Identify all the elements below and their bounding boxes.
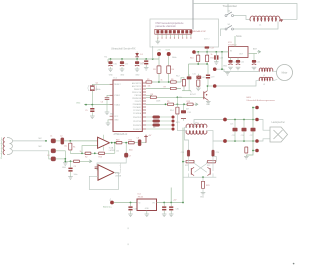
svg-text:PC4/SDA: PC4/SDA xyxy=(133,112,142,115)
svg-text:8MHz: 8MHz xyxy=(96,89,101,91)
feedback loop IC2B xyxy=(89,173,118,190)
svg-text:10k: 10k xyxy=(116,151,119,153)
svg-text:D1: D1 xyxy=(140,54,143,56)
svg-text:R13: R13 xyxy=(187,101,190,103)
svg-text:R4: R4 xyxy=(172,69,174,71)
svg-text:+5V: +5V xyxy=(173,200,177,202)
capacitor C10 xyxy=(110,59,112,61)
ground inside frame xyxy=(157,39,159,42)
svg-text:SV1: SV1 xyxy=(176,122,180,124)
connector pin stubs xyxy=(157,34,159,37)
svg-text:IC2A: IC2A xyxy=(109,146,114,149)
wire mic top xyxy=(13,140,46,142)
svg-text:10u: 10u xyxy=(64,146,67,148)
svg-text:C11: C11 xyxy=(125,64,128,66)
pad K5 xyxy=(255,139,259,143)
svg-text:C18: C18 xyxy=(220,58,223,60)
connector SV2 ICSP header xyxy=(155,29,192,34)
resistor R25 xyxy=(197,80,200,86)
svg-text:PC5/SCL: PC5/SCL xyxy=(133,110,141,112)
svg-text:PD6/AIN0: PD6/AIN0 xyxy=(133,103,141,106)
wire PB0 row xyxy=(146,81,181,83)
wire coils to motor xyxy=(273,71,278,73)
wire antenna out xyxy=(283,19,298,21)
svg-text:BC547: BC547 xyxy=(190,94,196,96)
resistor R11 xyxy=(206,52,208,55)
wire bank left rail xyxy=(252,108,254,120)
svg-text:Node: Node xyxy=(236,35,242,38)
svg-text:C28: C28 xyxy=(134,208,137,210)
resistor R14 xyxy=(176,107,179,114)
svg-text:PD5/T1: PD5/T1 xyxy=(135,101,141,103)
wire R21 to rail xyxy=(183,161,186,163)
svg-text:Lautsprecher: Lautsprecher xyxy=(272,121,286,124)
svg-text:GND: GND xyxy=(145,208,150,210)
svg-text:R6: R6 xyxy=(171,79,173,81)
capacitor C1 xyxy=(51,139,56,143)
svg-text:C27: C27 xyxy=(250,135,253,137)
svg-text:L1: L1 xyxy=(259,25,262,27)
svg-text:ADC6/PC0: ADC6/PC0 xyxy=(132,82,141,85)
svg-text:PB2/SS: PB2/SS xyxy=(135,95,142,97)
capacitor C7 xyxy=(125,143,127,154)
pad K3 xyxy=(255,118,259,122)
junction xyxy=(45,140,47,142)
svg-text:+5V: +5V xyxy=(157,49,161,51)
junction xyxy=(110,58,112,60)
voltage regulator IC4 xyxy=(137,199,157,211)
net arrow xyxy=(195,103,197,106)
wire pad M1 to motor xyxy=(217,69,260,71)
svg-text:R5: R5 xyxy=(147,79,149,81)
ground IC1 GND pin xyxy=(108,120,110,123)
svg-text:TR1: TR1 xyxy=(195,122,199,124)
svg-text:IC1: IC1 xyxy=(114,78,118,80)
svg-text:KSM messekursprojektierte: KSM messekursprojektierte xyxy=(156,22,185,25)
svg-text:R1: R1 xyxy=(73,146,75,148)
svg-text:TX1: TX1 xyxy=(104,57,107,59)
svg-text:GND: GND xyxy=(200,197,205,199)
capacitor C20 xyxy=(230,58,232,61)
capacitor C5 xyxy=(91,105,93,108)
ground regulator xyxy=(146,211,148,214)
svg-text:PD3/INT1: PD3/INT1 xyxy=(133,129,141,131)
capacitor C16 xyxy=(182,104,184,110)
capacitor C2 xyxy=(56,140,61,142)
capacitor C30 xyxy=(170,203,172,207)
svg-text:HE3: HE3 xyxy=(247,97,252,99)
filter beads FB1-FB3 xyxy=(153,116,160,119)
svg-text:GND: GND xyxy=(206,104,211,106)
transistor T1 xyxy=(203,91,205,99)
svg-text:C16: C16 xyxy=(187,112,190,114)
wire cap bank bottom rail xyxy=(227,140,255,142)
pad K6 xyxy=(255,149,259,153)
svg-text:PD0/RXD: PD0/RXD xyxy=(133,117,142,119)
capacitor C4 xyxy=(51,157,56,161)
svg-text:Motor: Motor xyxy=(282,72,288,75)
ground motor wire xyxy=(227,71,229,74)
capacitor C21 xyxy=(237,58,239,61)
wire to LED branch xyxy=(188,64,190,77)
inductor L2 xyxy=(259,68,273,72)
svg-text:ATMEGA8-AI: ATMEGA8-AI xyxy=(114,133,128,136)
pad Batterie+ xyxy=(110,201,114,205)
svg-text:R14: R14 xyxy=(170,110,173,112)
svg-text:C6: C6 xyxy=(101,101,103,103)
svg-text:R21: R21 xyxy=(185,165,188,167)
motor M xyxy=(277,65,293,81)
transistor T2 xyxy=(191,167,194,175)
resistor R22 xyxy=(208,160,216,163)
wire header to sensor rail xyxy=(152,46,154,59)
coupling capacitor C9 xyxy=(95,166,100,168)
svg-text:GND: GND xyxy=(110,114,115,116)
svg-text:10k: 10k xyxy=(148,86,151,88)
connector SV1 pads xyxy=(171,115,174,118)
svg-text:Kondensatormikrofon: Kondensatormikrofon xyxy=(0,137,3,159)
wire RF driver lower rail xyxy=(189,63,208,65)
ground emitter xyxy=(207,100,209,103)
svg-text:C25: C25 xyxy=(230,124,233,126)
svg-text:ADC7/PC1: ADC7/PC1 xyxy=(132,85,141,88)
pad M2 xyxy=(213,84,217,88)
wire cap bank top rail xyxy=(227,119,255,121)
resistor R13 xyxy=(187,103,193,106)
op-amp IC2B xyxy=(98,165,114,180)
svg-text:GND: GND xyxy=(135,74,140,76)
switch S1 xyxy=(225,25,234,30)
LED1 xyxy=(196,76,201,79)
junction xyxy=(197,51,199,53)
svg-text:R23: R23 xyxy=(206,185,209,187)
svg-text:C7: C7 xyxy=(129,155,131,157)
resistor R8 xyxy=(150,96,156,99)
svg-text:passende vlastnosti: passende vlastnosti xyxy=(156,25,177,28)
transistor T3 xyxy=(207,167,210,175)
output chain of IC2A xyxy=(110,142,139,144)
svg-text:IC4: IC4 xyxy=(138,194,142,196)
wire OC1A row xyxy=(146,94,152,96)
svg-text:XTAL1: XTAL1 xyxy=(114,94,120,97)
capacitor C29 xyxy=(163,203,165,207)
wire Node into IC3 xyxy=(234,36,236,47)
wire antenna return loop xyxy=(234,22,278,30)
svg-text:1k: 1k xyxy=(161,80,163,82)
svg-text:R2: R2 xyxy=(85,157,87,159)
feedback wire xyxy=(114,143,116,154)
resistor R12 xyxy=(181,78,184,83)
svg-text:ANT2: ANT2 xyxy=(204,38,210,41)
svg-text:MEGA8-ICSP: MEGA8-ICSP xyxy=(193,30,207,33)
pad K4 xyxy=(223,139,227,143)
wire secondary right to pad xyxy=(207,131,224,141)
wire to inverting input xyxy=(82,146,98,154)
capacitor C17 xyxy=(205,46,210,48)
svg-text:XTAL2: XTAL2 xyxy=(114,103,120,106)
resistor R23 xyxy=(202,177,204,181)
svg-text:C2: C2 xyxy=(60,136,62,138)
ground mic bias xyxy=(63,163,68,166)
wire drive rail xyxy=(177,114,186,131)
wire primary tap to pad xyxy=(194,120,223,128)
svg-text:4k7: 4k7 xyxy=(186,108,189,110)
svg-text:GND: GND xyxy=(109,74,114,76)
resistor R7 xyxy=(170,87,176,89)
svg-text:PB1/OC1A: PB1/OC1A xyxy=(132,91,142,94)
stray mark xyxy=(293,263,295,265)
IC1 ATMEGA8 microcontroller xyxy=(113,80,142,132)
svg-text:Transmitter: Transmitter xyxy=(223,4,238,8)
svg-text:GND: GND xyxy=(62,167,67,169)
wire switch S1 to node xyxy=(221,29,226,36)
transformer TR1 primary xyxy=(186,124,207,128)
wire sensor rail xyxy=(108,58,159,60)
svg-text:Ultraschall Sende+RX: Ultraschall Sende+RX xyxy=(111,47,136,50)
svg-text:OSC: OSC xyxy=(76,103,81,105)
svg-text:78L05: 78L05 xyxy=(138,196,144,198)
net arrow xyxy=(89,160,91,163)
resistor R1 xyxy=(69,141,71,143)
svg-text:C3: C3 xyxy=(74,166,76,168)
svg-text:PB3/MOSI: PB3/MOSI xyxy=(132,98,141,100)
crystal Q1 xyxy=(92,84,109,85)
svg-text:C15: C15 xyxy=(192,74,195,76)
wire to second stage xyxy=(97,157,126,166)
svg-text:OUT: OUT xyxy=(166,49,171,51)
pad K2 xyxy=(223,118,227,122)
wire lower bar xyxy=(182,90,191,92)
svg-text:R22: R22 xyxy=(207,165,210,167)
svg-text:C26: C26 xyxy=(241,135,244,137)
wire +5V rail xyxy=(182,128,184,203)
capacitor C11 xyxy=(121,59,123,61)
cross-coupling wires xyxy=(195,162,207,173)
svg-text:R12: R12 xyxy=(176,76,179,78)
resistor R10 xyxy=(197,52,199,55)
IC1 left pin stubs xyxy=(110,83,113,85)
wire row 2 xyxy=(146,88,181,90)
svg-text:C10: C10 xyxy=(113,64,116,66)
svg-text:C8: C8 xyxy=(137,138,139,140)
resistor R17 xyxy=(74,160,80,162)
svg-text:PD7/AIN1: PD7/AIN1 xyxy=(133,106,141,109)
svg-text:R8: R8 xyxy=(151,94,153,96)
svg-text:C13: C13 xyxy=(140,62,143,64)
svg-text:PB0/ICP: PB0/ICP xyxy=(134,89,142,91)
resistor R4 xyxy=(168,56,170,66)
svg-text:C19: C19 xyxy=(211,76,214,78)
pad +5V xyxy=(157,52,161,56)
svg-text:MIC: MIC xyxy=(39,146,43,148)
svg-text:1k: 1k xyxy=(194,53,196,55)
svg-text:C5: C5 xyxy=(85,110,87,112)
wire R22 outer xyxy=(213,156,216,161)
capacitor C27 xyxy=(251,128,256,132)
capacitor C6 xyxy=(107,95,110,97)
capacitor C28 xyxy=(130,203,132,207)
svg-text:Ultraschall-Entfernungsmesser: Ultraschall-Entfernungsmesser xyxy=(247,99,276,102)
wire PD6 row xyxy=(146,103,194,105)
svg-text:L2: L2 xyxy=(263,75,265,77)
wire emitter rail xyxy=(183,176,216,178)
wire cap C23 to T2 xyxy=(188,156,190,171)
wire bias xyxy=(49,151,51,159)
diode D1 xyxy=(135,53,139,57)
wire collector xyxy=(207,86,209,90)
module frame ICSP-header block xyxy=(150,19,219,47)
svg-text:C17: C17 xyxy=(211,48,214,50)
microphone MIC1 xyxy=(7,138,13,155)
svg-text:C4: C4 xyxy=(47,155,49,157)
speaker LS1 xyxy=(270,127,288,142)
svg-text:R11: R11 xyxy=(211,58,214,60)
svg-text:GND: GND xyxy=(120,74,125,76)
capacitor C18 xyxy=(215,52,217,56)
resistor R15 xyxy=(99,152,105,154)
pad OUT xyxy=(167,52,171,56)
IC3 transmitter module box xyxy=(229,47,249,58)
IC1 right pin stubs xyxy=(142,82,146,84)
svg-text:R20: R20 xyxy=(129,139,132,141)
svg-text:RESET: RESET xyxy=(114,84,121,86)
ground oscillator xyxy=(201,193,206,196)
svg-text:GND: GND xyxy=(223,65,228,67)
wire base row xyxy=(146,96,204,98)
resistor R5 xyxy=(146,81,152,83)
svg-text:LED: LED xyxy=(202,77,206,79)
supply arrow +5V xyxy=(144,135,148,143)
svg-text:22k: 22k xyxy=(179,97,182,99)
switch S2 xyxy=(225,12,234,17)
resistor R21 xyxy=(186,160,194,163)
capacitor C8 xyxy=(138,140,141,146)
svg-text:MIC: MIC xyxy=(39,138,43,140)
resistor R3 xyxy=(158,56,160,66)
svg-text:L3: L3 xyxy=(263,84,265,86)
svg-text:R3: R3 xyxy=(153,69,155,71)
svg-text:GND: GND xyxy=(114,120,119,122)
capacitor C25 xyxy=(234,120,236,128)
wire pads K1 K6 stubs xyxy=(253,107,255,109)
wire inverting input network xyxy=(70,152,115,154)
svg-text:PD2/INT0: PD2/INT0 xyxy=(133,125,141,127)
svg-text:C30: C30 xyxy=(176,208,179,210)
wire connector rows xyxy=(146,116,171,118)
antenna coil L1 xyxy=(250,20,251,22)
wire pad M2 to motor xyxy=(217,81,260,86)
svg-text:Q1: Q1 xyxy=(96,83,99,85)
svg-text:C23: C23 xyxy=(181,152,184,154)
resistor R20 xyxy=(128,142,134,144)
capacitor C23 xyxy=(187,150,190,156)
wire IC3 output with antenna arrow xyxy=(248,53,257,55)
wire arrow out xyxy=(65,160,88,162)
capacitor C13 xyxy=(145,59,147,60)
wire cap C24 to T3 xyxy=(212,156,214,171)
wire from top edge into header xyxy=(192,0,194,29)
resistor R6 xyxy=(170,81,176,83)
pad antenna node xyxy=(192,50,196,54)
wire mic bottom xyxy=(13,150,49,152)
svg-text:1k: 1k xyxy=(80,151,82,153)
svg-text:100n: 100n xyxy=(74,174,78,176)
wire battery to regulator xyxy=(114,202,137,204)
wire RF rail xyxy=(196,51,229,53)
svg-text:Batterie+: Batterie+ xyxy=(103,205,113,208)
capacitor C26 xyxy=(243,120,245,128)
pad K1 xyxy=(255,106,259,110)
wire speaker leads xyxy=(259,120,270,131)
capacitor C22 xyxy=(253,54,255,61)
svg-text:R10: R10 xyxy=(190,58,193,60)
capacitor C24 xyxy=(212,141,214,150)
transformer TR1 secondary xyxy=(186,131,207,135)
wire to ground node xyxy=(56,151,66,163)
svg-text:+5V: +5V xyxy=(148,135,152,137)
svg-text:100n: 100n xyxy=(129,150,133,152)
wire switch S2 to antenna coil xyxy=(234,16,250,20)
wire aux rail xyxy=(170,188,172,203)
wire crystal to XTAL2 rail xyxy=(91,91,93,105)
capacitor C3 xyxy=(51,149,56,153)
svg-text:C22: C22 xyxy=(257,62,260,64)
capacitor C19 snubber xyxy=(207,64,209,74)
capacitor C12 xyxy=(136,59,138,61)
resistor R24 xyxy=(245,147,248,153)
svg-text:PD1/TXD: PD1/TXD xyxy=(133,121,142,123)
inductor L3 xyxy=(259,77,273,81)
svg-text:C21: C21 xyxy=(241,62,244,64)
resistor R19 xyxy=(116,142,122,144)
capacitor C15 xyxy=(187,76,192,79)
pad M1 xyxy=(213,67,217,71)
svg-text:R19: R19 xyxy=(116,139,119,141)
wire drop to switch S2 xyxy=(227,4,229,13)
wire regulator output xyxy=(157,202,184,204)
wire to opamp+ xyxy=(64,140,98,142)
svg-text:C25: C25 xyxy=(232,135,235,137)
svg-text:R9: R9 xyxy=(167,101,169,103)
wire XTAL2 xyxy=(84,104,110,106)
svg-text:MHz: MHz xyxy=(172,57,176,59)
svg-text:C1: C1 xyxy=(50,136,52,138)
svg-text:C24: C24 xyxy=(216,152,219,154)
resistor R9 xyxy=(168,103,174,106)
svg-text:1k: 1k xyxy=(211,54,213,56)
svg-text:VCC: VCC xyxy=(114,116,119,118)
svg-text:R15: R15 xyxy=(99,157,102,159)
svg-text:100R: 100R xyxy=(156,101,161,103)
svg-text:R7: R7 xyxy=(164,86,166,88)
svg-text:Verstaerker: Verstaerker xyxy=(119,163,122,174)
resistor R2 xyxy=(85,152,91,154)
op-amp IC2A xyxy=(98,137,110,148)
svg-text:B+: B+ xyxy=(110,197,112,200)
wire top rail xyxy=(193,4,297,20)
capacitor C3b xyxy=(70,161,72,167)
wire primary left to rail xyxy=(185,128,189,150)
svg-text:ANT: ANT xyxy=(253,48,258,51)
